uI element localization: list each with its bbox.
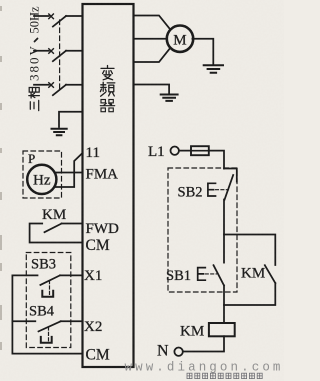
- switch QS pole 3 blade: [53, 85, 66, 96]
- SB3 wire leads (X1): [12, 274, 82, 276]
- KM aux contact branch wires: [224, 235, 275, 306]
- SB1 actuator button: [198, 268, 206, 281]
- wire Hz meter to FMA: [56, 172, 83, 174]
- wire U output to motor: [134, 16, 171, 30]
- SB3 blade: [40, 275, 60, 285]
- L1 terminal circle: [171, 147, 179, 155]
- frequency meter P circle (Hz): [27, 165, 56, 194]
- punctuation dot: [35, 39, 38, 42]
- inverter box U1 (变频器): [83, 4, 134, 367]
- wire V output to motor: [134, 38, 167, 40]
- SB3 actuator button: [42, 291, 53, 297]
- KM contact KM1 blade: [45, 224, 62, 233]
- KM aux contact blade: [265, 265, 276, 283]
- switch QS pole 2 fixed contact x: [49, 49, 54, 54]
- SB2 bottom lead: [223, 200, 225, 263]
- SB4 actuator button: [41, 337, 52, 343]
- glyph 频: [100, 82, 114, 96]
- label 变频器 (inverter) drawn as paths: [100, 66, 115, 112]
- switch QS mechanical linkage (dashed): [59, 20, 61, 92]
- switch QS pole 1 fixed contact x: [49, 14, 54, 19]
- SB1 actuator link (dashed): [205, 273, 216, 275]
- wire Hz meter to terminal 11: [55, 153, 83, 187]
- watermark 头条号电子工程师说记 (tiny glyphs): [187, 373, 262, 378]
- glyph 器: [100, 100, 114, 112]
- wire inverter earth (right): [134, 85, 170, 94]
- KM contact KM1 leads (FWD-CM): [30, 224, 83, 243]
- switch QS pole 1 blade: [53, 16, 66, 27]
- switch QS pole 3 fixed contact x: [49, 83, 54, 88]
- SB2 actuator button: [208, 183, 216, 196]
- fuse FU: [191, 146, 209, 155]
- frequency meter dashed box: [23, 151, 62, 198]
- SB3 actuator link (dashed): [49, 281, 51, 295]
- ground G3 (motor frame): [204, 65, 223, 73]
- glyph 相: [29, 88, 40, 99]
- wire L1 to fuse to main line: [179, 151, 224, 169]
- SB4 blade: [39, 321, 61, 331]
- switch QS pole 3 wire: [34, 84, 83, 86]
- ground G2 (inverter earth): [161, 95, 178, 101]
- wire KM coil to N line: [183, 336, 224, 351]
- SB1 bottom lead: [223, 286, 225, 324]
- switch QS pole 2 blade: [53, 51, 66, 62]
- wire W output to motor: [134, 48, 171, 62]
- glyph 三: [30, 100, 38, 110]
- wire to ground from inverter PE terminal: [59, 112, 83, 127]
- SB2 top jog wire: [224, 169, 237, 182]
- control buttons dashed box: [168, 168, 237, 292]
- SB3/SB4 dashed box: [26, 253, 71, 348]
- switch QS pole 1 wire: [34, 15, 83, 17]
- SB2 actuator link (dashed): [216, 189, 229, 191]
- N terminal circle: [174, 348, 182, 356]
- SB2 blade (NC): [225, 175, 234, 200]
- left rail wire (SB3/SB4 common): [12, 275, 82, 353]
- switch QS pole 2 wire: [34, 50, 83, 52]
- KM coil: [209, 323, 235, 336]
- ground G1: [52, 129, 67, 135]
- SB1 blade (NO): [214, 265, 225, 285]
- SB4 actuator link (dashed): [48, 327, 50, 342]
- SB4 wire leads (X2): [12, 320, 82, 322]
- label 三相380V、50Hz (three-phase supply, rotated): [27, 6, 42, 111]
- scan edge smudges: [0, 6, 2, 350]
- glyph 变: [101, 66, 114, 80]
- wire motor to ground: [192, 39, 213, 64]
- motor M circle: [167, 26, 193, 52]
